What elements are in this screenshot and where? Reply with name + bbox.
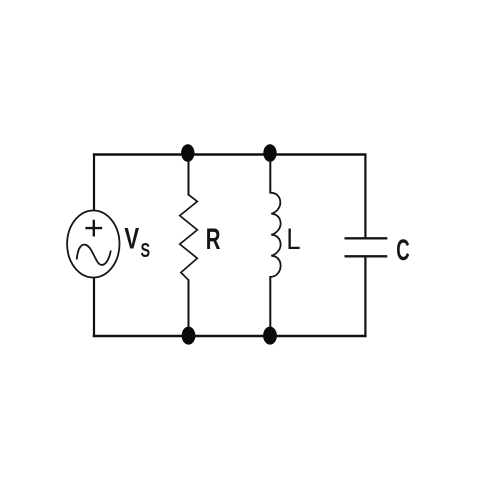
wire resistor bottom lead [188, 280, 190, 338]
wire inductor top lead [269, 154, 271, 194]
resistor R [180, 195, 198, 280]
wire right upper (top wire to capacitor) [364, 154, 366, 239]
capacitor C top plate [345, 237, 388, 239]
svg-text:S: S [141, 239, 151, 262]
junction node bottom-right (L bottom) [263, 327, 277, 345]
svg-text:V: V [124, 221, 139, 255]
junction node bottom-left (R bottom) [182, 327, 196, 345]
wire left lower (source to bottom wire) [93, 278, 95, 338]
wire resistor top lead [188, 154, 190, 196]
junction node top-right (L top) [263, 144, 276, 162]
svg-text:R: R [206, 223, 221, 256]
voltage source VS [67, 211, 119, 278]
svg-text:L: L [286, 222, 300, 255]
wire bottom [93, 335, 367, 337]
wire left upper (top wire to source) [93, 154, 95, 212]
inductor L [270, 193, 280, 277]
label Vs [124, 221, 150, 261]
junction node top-left (R top) [181, 144, 194, 162]
capacitor C bottom plate [345, 255, 388, 257]
wire right lower (capacitor to bottom wire) [364, 257, 366, 338]
wire inductor bottom lead [269, 276, 271, 337]
wire top [93, 153, 367, 155]
svg-text:C: C [396, 234, 409, 268]
